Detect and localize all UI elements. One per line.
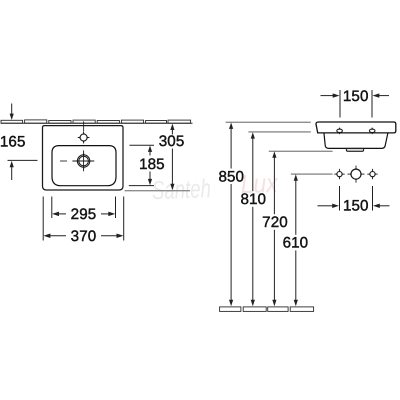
dim 150 top extension lines (339, 90, 341, 118)
fixing hole left (334, 169, 344, 179)
level line 850 (rim top) (226, 121, 311, 123)
tap hole (78, 132, 90, 144)
watermark (151, 168, 279, 205)
dim 150 bottom line + arrows (318, 205, 333, 207)
svg-text:370: 370 (71, 228, 97, 245)
svg-text:305: 305 (159, 133, 185, 150)
dim 185 extension top (129, 144, 154, 146)
svg-text:295: 295 (71, 206, 97, 223)
basin outer rect (43, 126, 124, 190)
dim 850 (230, 127, 232, 301)
drain centerline dash (60, 160, 67, 162)
dim 185 extension bottom (129, 185, 154, 187)
svg-text:850: 850 (218, 168, 244, 185)
svg-text:150: 150 (343, 197, 369, 214)
dim 370 extension lines (42, 197, 44, 241)
svg-text:Santeh: Santeh (151, 173, 211, 205)
level line 810 (rim bottom) (248, 131, 310, 133)
dim 165 bottom arrow (11, 167, 13, 181)
mounting hole center (348, 166, 365, 183)
overflow/tap mark right (369, 128, 375, 135)
dim 165 top arrow (11, 104, 13, 115)
dim 150 bottom extension lines (339, 186, 341, 211)
dim 165 extension line (8, 159, 38, 161)
dim 810 (252, 137, 254, 302)
dim 185 line (149, 151, 151, 181)
svg-text:165: 165 (0, 133, 26, 150)
basin bowl (side) (324, 133, 388, 148)
drain boss (346, 148, 363, 151)
dim 305 line (171, 129, 173, 185)
svg-text:720: 720 (262, 214, 288, 231)
wall hatch boxes (1, 120, 191, 123)
drain (72, 150, 94, 171)
dim 150 top line + arrows (321, 95, 334, 97)
svg-text:150: 150 (343, 88, 369, 105)
dim 610 (295, 179, 297, 301)
svg-text:610: 610 (283, 235, 309, 252)
dim 295 extension lines (51, 197, 53, 219)
tap hole centerline (83, 121, 85, 131)
floor hatch boxes (220, 307, 314, 312)
level line 720 (bowl bottom) (269, 150, 333, 152)
svg-text:810: 810 (240, 191, 266, 208)
dim 370 line + arrows (50, 235, 67, 237)
basin rim (side) (316, 122, 396, 133)
overflow/tap mark left (337, 128, 343, 135)
wall line (1, 122, 193, 124)
basin inner bowl (52, 146, 116, 186)
dim 295 line + arrows (59, 213, 66, 215)
basin bottom extension line (gray) (125, 190, 191, 192)
svg-text:185: 185 (139, 156, 165, 173)
dim 720 (273, 156, 275, 301)
fixing hole right (367, 169, 377, 179)
level line 610 (fixing holes) (291, 173, 333, 175)
